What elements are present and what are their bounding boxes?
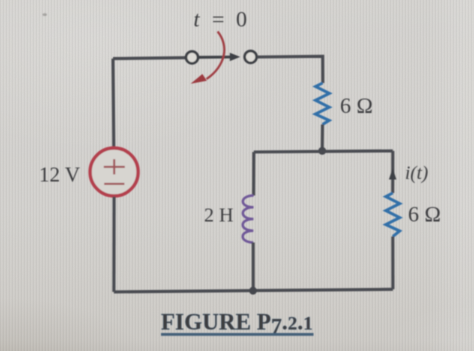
label 2 H bbox=[204, 205, 233, 227]
inductor L1 2H coil bbox=[243, 196, 254, 243]
wire top-right segment bbox=[257, 56, 323, 83]
current direction arrow i(t) bbox=[389, 168, 397, 179]
svg-text:6 Ω: 6 Ω bbox=[340, 93, 373, 118]
switch pole SW1 left terminal bbox=[186, 51, 198, 63]
node junction bottom bbox=[249, 287, 257, 295]
bottom wire bbox=[114, 289, 393, 292]
dust speck bbox=[43, 13, 47, 16]
wire left branch top bbox=[111, 59, 115, 149]
wire R1 bottom lead bbox=[321, 125, 324, 151]
wire top-left segment bbox=[113, 56, 186, 60]
red closing arrow annotation bbox=[191, 32, 225, 84]
wire left branch bottom bbox=[112, 197, 115, 292]
middle horizontal wire bbox=[254, 151, 393, 152]
svg-text:6 Ω: 6 Ω bbox=[408, 202, 441, 227]
wire inductor bottom lead bbox=[252, 243, 255, 292]
label t = 0 bbox=[194, 7, 248, 32]
plus sign bbox=[104, 159, 125, 174]
voltage source V1 circle bbox=[90, 148, 138, 196]
resistor R2 6ohm zigzag bbox=[386, 193, 400, 237]
label 6 ohm right bbox=[408, 202, 441, 227]
wire right branch top lead bbox=[391, 151, 394, 193]
wire right branch bottom lead bbox=[391, 237, 394, 290]
wire inductor top lead bbox=[252, 152, 255, 196]
resistor R1 6ohm zigzag bbox=[315, 83, 329, 125]
label 6 ohm top bbox=[340, 93, 373, 118]
node junction top bbox=[318, 147, 326, 155]
label i(t) bbox=[405, 163, 428, 184]
label 12 V bbox=[39, 163, 80, 187]
figure caption bbox=[161, 310, 314, 339]
switch blade arrow bbox=[198, 53, 240, 61]
minus sign bbox=[104, 183, 124, 185]
switch SW1 right terminal bbox=[245, 51, 257, 63]
svg-text:2 H: 2 H bbox=[204, 205, 233, 227]
svg-text:12 V: 12 V bbox=[39, 163, 80, 187]
svg-text:i(t): i(t) bbox=[405, 163, 428, 184]
